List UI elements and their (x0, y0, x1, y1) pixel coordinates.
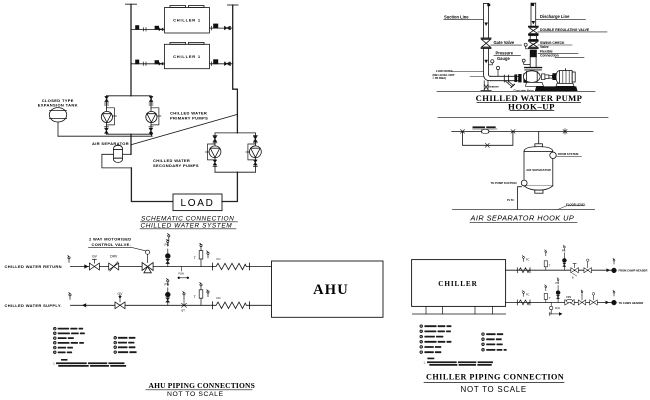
pump P3 secondary left branch (206, 133, 221, 172)
valve GV return (571, 264, 579, 280)
svg-text:> 85 DBA): > 85 DBA) (433, 76, 447, 80)
svg-text:AHU PIPING CONNECTIONS: AHU PIPING CONNECTIONS (149, 381, 255, 390)
svg-text:FROM CHWP HEADER: FROM CHWP HEADER (619, 269, 648, 273)
svg-text:FLW: FLW (555, 307, 561, 310)
svg-text:Suction Line: Suction Line (444, 14, 469, 19)
svg-text:CHILLER 1: CHILLER 1 (173, 17, 201, 22)
pipe suction line vertical (484, 3, 491, 74)
coupling and shaft (542, 73, 557, 80)
pump base block (535, 86, 578, 91)
svg-text:NOT TO SCALE: NOT TO SCALE (167, 391, 224, 398)
valve swing check (529, 41, 538, 49)
svg-text:PG: PG (556, 282, 560, 285)
svg-text:EXPANSION TANK: EXPANSION TANK (38, 103, 78, 108)
arrow supply flow (82, 303, 86, 307)
valve DRV return (109, 255, 119, 271)
valve balancing on header (482, 129, 489, 133)
valve GV supply (115, 292, 125, 309)
wire chiller1 inlet (131, 26, 165, 31)
pipe discharge line vertical (531, 3, 536, 26)
svg-text:SECONDARY PUMPS: SECONDARY PUMPS (153, 163, 199, 168)
svg-text:AIR SEPARATOR: AIR SEPARATOR (92, 141, 129, 146)
svg-text:FLW: FLW (179, 272, 185, 276)
gauge PG horizontal pipe (496, 66, 499, 76)
label 2 way motorised control valve (89, 237, 132, 247)
pump P1 primary left branch (101, 96, 116, 134)
svg-text:CHILLER 1: CHILLER 1 (173, 54, 201, 59)
support pipe stand (481, 81, 491, 91)
wire to load supply (131, 168, 173, 202)
expansion tank T1 (38, 98, 78, 136)
valve tick far right (563, 129, 567, 135)
pipe pump riser (530, 57, 536, 67)
valve balancing FCV supply (565, 297, 574, 305)
reducer flange stack (514, 73, 530, 83)
arrow return flow (84, 264, 88, 268)
svg-text:T: T (549, 263, 551, 267)
wire supply line (71, 304, 213, 306)
svg-text:FCV: FCV (567, 297, 572, 299)
svg-text:PG: PG (165, 243, 170, 247)
spool piece flanged (529, 36, 538, 40)
node secondary pump header bottom (215, 171, 255, 173)
gauge PG pump top (522, 59, 530, 64)
node secondary pump header top (215, 132, 255, 134)
gauge PG supply (556, 278, 561, 303)
wire right riser (233, 5, 238, 133)
svg-text:FC: FC (526, 259, 530, 262)
svg-text:LOAD: LOAD (180, 198, 214, 209)
svg-text:Pressure: Pressure (496, 50, 514, 55)
thermometer T supply (544, 285, 551, 303)
nozzle to pump suction (521, 180, 527, 186)
load box (173, 194, 222, 211)
title schematic connection (141, 216, 235, 230)
vent glyph stray (168, 234, 170, 241)
drain valve supply (182, 292, 187, 313)
valve gate valve suction (481, 38, 491, 48)
gauge PG return (165, 239, 171, 266)
legend chiller left column (420, 325, 451, 354)
svg-text:T: T (194, 295, 196, 299)
strainer blowdown (505, 81, 515, 88)
wire return line (71, 266, 213, 268)
valve GV return (89, 255, 99, 270)
svg-text:Connection: Connection (540, 54, 559, 58)
wire diagonal to secondary loop (131, 114, 237, 144)
svg-text:Strainer: Strainer (488, 85, 500, 89)
valve bypass gate (485, 143, 489, 147)
air separator AS1 (92, 141, 131, 168)
svg-text:AHU: AHU (313, 282, 349, 298)
svg-text:DOUBLE REGULATING VALVE: DOUBLE REGULATING VALVE (540, 28, 590, 32)
wire left riser (130, 4, 132, 96)
wire bypass loop (463, 131, 513, 145)
thermometer T return (194, 243, 203, 266)
svg-text:CHILLED WATER SUPPLY.: CHILLED WATER SUPPLY. (5, 303, 62, 308)
notes chiller (424, 358, 494, 366)
valve tick left (461, 130, 465, 134)
gauge PG return (562, 245, 567, 270)
valve GV supply (578, 290, 586, 305)
svg-text:CHILLER PIPING CONNECTION: CHILLER PIPING CONNECTION (426, 373, 564, 382)
pump P2 primary right branch (146, 96, 161, 134)
svg-text:Gate Valve: Gate Valve (494, 40, 515, 45)
gauge PG suction (489, 60, 494, 65)
AHU box (272, 261, 384, 317)
svg-text:FV 50: FV 50 (507, 199, 514, 202)
svg-text:Valve: Valve (540, 45, 549, 49)
svg-text:AIR SEPARATOR HOOK UP: AIR SEPARATOR HOOK UP (470, 214, 575, 223)
svg-text:AIR SEPARATOR: AIR SEPARATOR (526, 168, 552, 172)
svg-text:GV: GV (92, 255, 98, 259)
motor M1 (556, 69, 575, 87)
drain with flow switch supply (549, 302, 562, 315)
title chilled water pump hook-up (476, 93, 583, 111)
svg-text:1.: 1. (424, 361, 426, 364)
svg-text:GV: GV (118, 292, 124, 296)
chiller feet (412, 306, 505, 314)
air separator vessel (524, 131, 553, 193)
wire load return (222, 172, 237, 201)
valve DRV return (584, 259, 592, 273)
wire return header line (506, 269, 612, 271)
label pressure reducing valve (473, 126, 486, 128)
svg-text:NOT TO SCALE: NOT TO SCALE (461, 385, 527, 394)
thermometer T supply (194, 283, 203, 306)
legend AHU right column (114, 337, 137, 354)
wire drain to floor (518, 187, 522, 210)
wire riser to air separator (130, 134, 132, 154)
flexible FC return (517, 256, 530, 273)
thermometer T return (544, 250, 551, 270)
arrow supply (606, 301, 610, 305)
valve 3-way motorised (142, 250, 153, 273)
svg-text:HOOK–UP: HOOK–UP (508, 101, 555, 111)
arrow return (607, 268, 611, 272)
flexible FC return (207, 251, 250, 270)
connector to CHWS header (612, 300, 617, 305)
svg-text:PG: PG (165, 282, 170, 286)
wire main header (452, 130, 593, 132)
svg-text:BT: BT (182, 309, 186, 313)
vent return start (68, 255, 70, 262)
svg-text:CONTROL VALVE.: CONTROL VALVE. (92, 242, 132, 247)
pump P4 secondary right branch (246, 133, 261, 172)
wire expansion tank line (58, 135, 152, 137)
chiller CH-1 (top) (165, 6, 210, 34)
svg-text:TO CHWS HEADER: TO CHWS HEADER (619, 301, 644, 305)
svg-text:CHILLED WATER RETURN: CHILLED WATER RETURN (5, 264, 62, 269)
valve double regulating (529, 26, 538, 34)
svg-text:Gauge: Gauge (497, 56, 510, 61)
flexible connection discharge (530, 50, 537, 58)
vent supply start (69, 293, 71, 300)
pump casing (523, 68, 543, 87)
node primary pump header bottom (107, 133, 152, 135)
flexible FC supply (517, 291, 530, 305)
gauge PG supply (165, 279, 171, 306)
svg-text:FC: FC (526, 294, 530, 297)
valve tick right of bypass (511, 130, 515, 134)
flange ticks horizontal pipe (503, 75, 505, 82)
node primary pump header top (107, 95, 152, 97)
svg-text:Discharge Line: Discharge Line (540, 14, 570, 19)
wire chiller2 inlet (131, 60, 164, 65)
ground line pump (437, 90, 595, 92)
flow switch return (178, 267, 189, 279)
legend AHU left column (54, 327, 85, 353)
nozzle from system (550, 152, 556, 158)
wire chiller2 outlet (210, 60, 233, 66)
wire supply header line (506, 301, 612, 303)
svg-text:1.: 1. (53, 362, 55, 365)
svg-text:FROM SYSTEM: FROM SYSTEM (558, 152, 579, 156)
legend chiller right column (482, 333, 507, 351)
valve DRV supply (590, 293, 598, 305)
svg-text:T: T (194, 256, 196, 260)
divider line (438, 117, 608, 119)
svg-text:DRV: DRV (110, 255, 118, 259)
chiller box (412, 260, 506, 307)
svg-text:T: T (549, 296, 551, 300)
svg-text:TO PUMP SUCTION: TO PUMP SUCTION (491, 181, 517, 185)
flexible FD supply (207, 290, 250, 309)
gauge PG discharge (524, 43, 529, 49)
ground line floor (453, 209, 595, 211)
notes AHU (53, 359, 126, 367)
chiller CH-2 (bottom) (164, 42, 209, 68)
svg-text:PRIMARY PUMPS: PRIMARY PUMPS (170, 116, 208, 121)
svg-text:CHILLER: CHILLER (438, 280, 477, 288)
pipe suction elbow to horizontal (484, 74, 515, 81)
svg-text:PG: PG (562, 250, 566, 253)
connector from CHWP header (612, 268, 617, 273)
wire chiller1 outlet (209, 24, 232, 30)
